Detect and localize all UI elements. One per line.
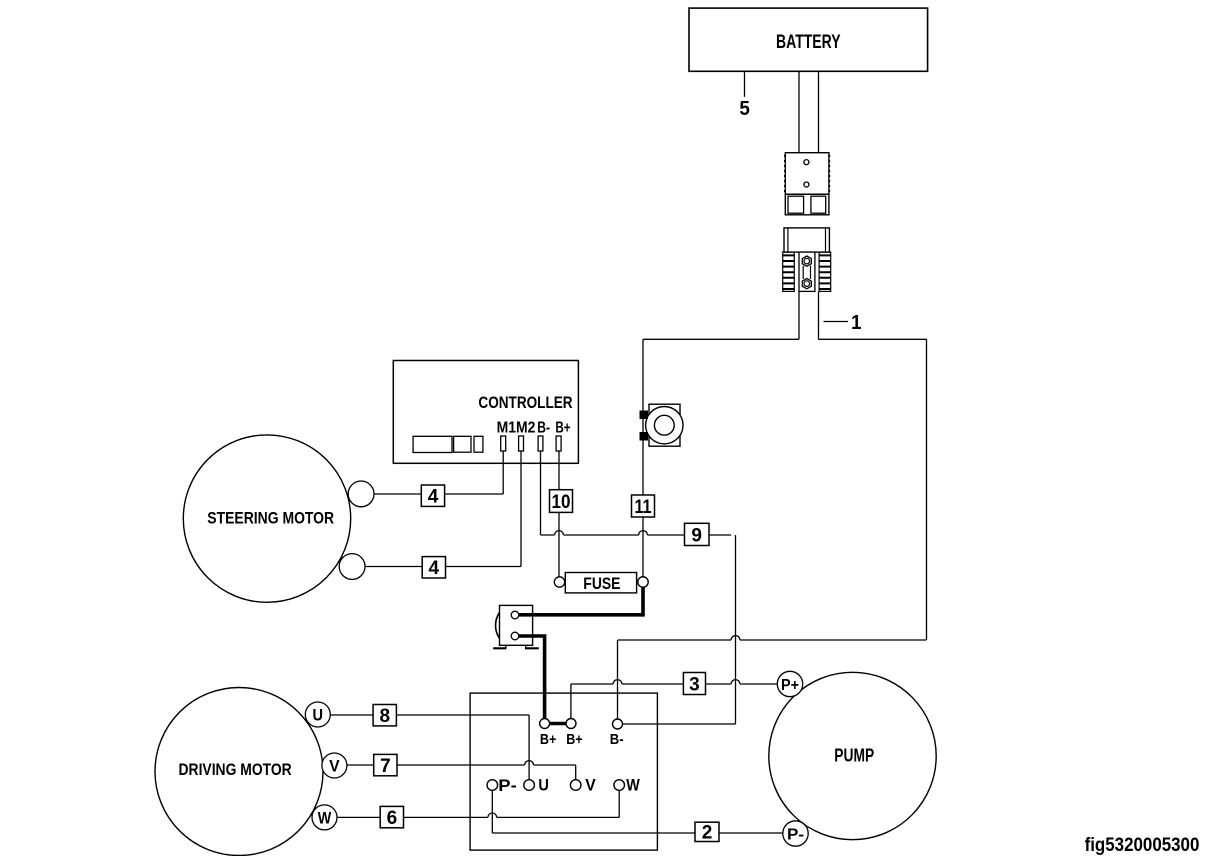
wire 8 horizontal from driving motor U: [329, 714, 529, 716]
svg-text:STEERING MOTOR: STEERING MOTOR: [207, 509, 334, 527]
svg-text:W: W: [318, 808, 332, 827]
pin B+: [556, 436, 561, 451]
wire battery positive lead: [798, 71, 800, 152]
wire 3 from B+ terminal up: [570, 684, 572, 719]
svg-text:B-: B-: [610, 732, 624, 748]
wire 9 horizontal (hop gaps at x559, x643): [541, 534, 732, 536]
wire 7 horizontal from driving motor V (hop gap at x529.1): [347, 764, 576, 766]
fuse right circle redraw: [638, 577, 648, 587]
thick cable fuse to contactor pin 1: [519, 586, 643, 615]
wire B- terminal vertical: [617, 640, 619, 719]
wire loop right vertical (battery negative): [926, 339, 928, 640]
wire 8 vertical down to U terminal: [528, 715, 530, 780]
P- terminal: [487, 780, 498, 791]
U terminal: [524, 780, 535, 791]
svg-text:U: U: [538, 776, 549, 795]
contactor: [493, 605, 539, 648]
contactor pin circles: [511, 611, 519, 619]
wire M2 pin down: [520, 451, 522, 567]
svg-text:M1M2: M1M2: [497, 420, 536, 437]
svg-text:CONTROLLER: CONTROLLER: [478, 393, 572, 412]
V terminal: [570, 780, 581, 791]
wire loop top left segment: [643, 338, 799, 340]
motor terminal V: [322, 753, 347, 778]
svg-text:11: 11: [635, 497, 652, 518]
label box 8: [373, 705, 396, 728]
svg-text:PUMP: PUMP: [834, 746, 874, 766]
pin M1: [501, 436, 506, 451]
label box 4 (upper): [421, 485, 444, 508]
svg-text:B+: B+: [540, 732, 556, 748]
pump terminal P-: [783, 821, 808, 846]
svg-text:BATTERY: BATTERY: [776, 32, 841, 53]
battery box: [689, 8, 928, 71]
svg-text:1: 1: [851, 312, 862, 334]
wire loop top right segment: [819, 338, 927, 340]
label box 7: [374, 754, 397, 777]
wire 9 to B- terminal: [622, 723, 735, 725]
svg-text:fig5320005300: fig5320005300: [1085, 835, 1200, 856]
wire 5 leader: [744, 71, 746, 97]
steering terminal lower: [339, 554, 365, 580]
steering terminal upper: [348, 481, 374, 507]
battery connector plug (upper half): [785, 153, 830, 215]
label box 6: [380, 806, 403, 829]
W terminal: [614, 780, 625, 791]
svg-text:7: 7: [380, 756, 391, 777]
pump: [769, 671, 936, 846]
label box 2: [695, 822, 719, 843]
B- terminal: [613, 719, 623, 729]
wire 3 horizontal to pump P+ (hop gaps at x617.5, x735.5): [571, 683, 777, 685]
wire 4 upper horizontal: [373, 493, 503, 495]
wire 9 vertical down: [735, 535, 737, 724]
driving motor: [155, 688, 347, 856]
label box 10: [550, 490, 573, 513]
svg-text:B-: B-: [537, 420, 550, 437]
svg-text:DRIVING MOTOR: DRIVING MOTOR: [179, 761, 292, 779]
steering motor: [183, 435, 374, 602]
controller box: [393, 361, 578, 464]
wire 10 controller B+ pin down to fuse: [558, 451, 560, 577]
svg-text:P-: P-: [498, 776, 517, 795]
hop arc B- wire over 9 vertical: [731, 636, 740, 640]
pin B-: [538, 436, 543, 451]
hop arc 9-wire over 10-wire: [555, 531, 564, 535]
label box 9: [685, 523, 710, 546]
wire 1 leader: [824, 321, 849, 323]
motor terminal W: [312, 805, 337, 830]
svg-text:W: W: [626, 776, 640, 795]
wire 9 controller B- pin down: [540, 451, 542, 535]
svg-text:FUSE: FUSE: [583, 575, 620, 593]
wire 6 vertical up to W terminal: [618, 790, 620, 817]
wire battery plus vertical to fuse: [642, 339, 644, 577]
hop arc 9-wire over battery vertical: [639, 531, 648, 535]
wire 7 vertical to V terminal: [575, 765, 577, 780]
key switch: [640, 404, 684, 446]
fuse: [554, 573, 648, 594]
label box 11: [632, 495, 655, 518]
B+ terminal 2: [566, 719, 576, 729]
svg-text:P-: P-: [787, 827, 804, 844]
hop arc 7-wire over 8 vertical: [525, 761, 534, 765]
svg-text:6: 6: [387, 808, 398, 829]
svg-text:B+: B+: [555, 420, 570, 437]
wire battery negative lead: [818, 71, 820, 152]
svg-text:5: 5: [739, 98, 750, 120]
svg-text:9: 9: [691, 525, 702, 546]
svg-text:8: 8: [380, 706, 391, 727]
wire B- horizontal to loop (hop gap at x735.5): [618, 639, 927, 641]
B+ terminal 1: [540, 719, 550, 729]
pump terminal P+: [777, 671, 802, 696]
hop arc 3-wire over 9 vertical: [731, 680, 740, 684]
motor terminal U: [305, 702, 330, 727]
svg-text:4: 4: [428, 487, 439, 508]
battery connector socket (lower half): [783, 228, 831, 292]
junction box: [470, 693, 657, 850]
label box 4 (lower): [422, 557, 445, 580]
wire 2 from P- terminal down: [491, 790, 493, 833]
wire 4 lower horizontal: [364, 566, 521, 568]
svg-text:3: 3: [689, 674, 700, 695]
svg-text:10: 10: [552, 492, 571, 513]
wire 2 horizontal to pump P-: [492, 832, 783, 834]
wire socket to loop left: [798, 291, 800, 339]
svg-text:V: V: [585, 776, 596, 795]
pin M2: [519, 436, 524, 451]
wire M1 pin down: [502, 451, 504, 494]
thick cable contactor pin 2 to B+ terminals: [519, 636, 572, 724]
svg-text:P+: P+: [781, 677, 799, 694]
hop arc 3-wire over B- vertical: [613, 680, 622, 684]
svg-text:B+: B+: [566, 732, 582, 748]
svg-text:U: U: [313, 706, 324, 725]
label box 3: [683, 673, 705, 696]
wire 6 horizontal from driving motor W (hop gap at x492.3): [337, 816, 619, 818]
svg-text:2: 2: [702, 823, 713, 844]
svg-text:V: V: [329, 757, 340, 776]
hop arc 6-wire over 2 vertical: [488, 813, 497, 817]
wire socket to loop right: [818, 291, 820, 339]
svg-text:4: 4: [429, 558, 440, 579]
